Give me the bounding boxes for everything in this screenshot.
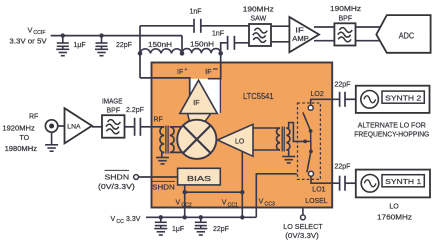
svg-text:22pF: 22pF: [335, 81, 351, 88]
svg-text:RF: RF: [154, 117, 163, 124]
svg-text:LTC5541: LTC5541: [243, 92, 274, 101]
svg-text:BIAS: BIAS: [187, 174, 211, 183]
svg-text:LNA: LNA: [67, 124, 81, 131]
svg-text:+: +: [184, 67, 187, 73]
svg-text:V: V: [222, 199, 227, 206]
svg-text:22pF: 22pF: [116, 42, 132, 49]
svg-text:CC1: CC1: [228, 202, 238, 208]
svg-text:V: V: [176, 199, 181, 206]
svg-text:3.3V or 5V: 3.3V or 5V: [9, 36, 46, 45]
svg-text:SYNTH 1: SYNTH 1: [385, 177, 421, 186]
svg-text:IMAGE: IMAGE: [102, 96, 123, 105]
svg-text:FREQUENCY-HOPPING: FREQUENCY-HOPPING: [354, 132, 429, 139]
svg-text:190MHz: 190MHz: [330, 4, 361, 13]
svg-text:LO1: LO1: [312, 187, 325, 194]
svg-text:CC3: CC3: [265, 202, 275, 208]
svg-text:IF: IF: [177, 69, 183, 76]
svg-text:1μF: 1μF: [74, 42, 86, 49]
svg-text:(0V/3.3V): (0V/3.3V): [98, 184, 135, 191]
svg-text:V: V: [28, 26, 33, 35]
svg-text:LO: LO: [235, 138, 245, 145]
svg-text:1980MHz: 1980MHz: [5, 144, 38, 153]
svg-text:2.2pF: 2.2pF: [126, 107, 144, 114]
svg-text:190MHz: 190MHz: [243, 4, 274, 13]
svg-text:CC2: CC2: [181, 202, 191, 208]
svg-text:V: V: [259, 199, 264, 206]
svg-text:SYNTH 2: SYNTH 2: [385, 93, 421, 102]
svg-text:ALTERNATE LO FOR: ALTERNATE LO FOR: [358, 123, 426, 130]
svg-text:TO: TO: [20, 135, 30, 142]
svg-text:RF: RF: [29, 114, 38, 121]
svg-text:IF: IF: [193, 100, 199, 107]
svg-text:1nF: 1nF: [190, 9, 202, 16]
svg-text:1μF: 1μF: [172, 226, 184, 233]
svg-text:IF: IF: [295, 27, 304, 34]
svg-text:CC: CC: [116, 219, 124, 225]
svg-text:22pF: 22pF: [213, 226, 229, 233]
svg-text:3.3V: 3.3V: [126, 216, 141, 223]
svg-text:22pF: 22pF: [335, 164, 351, 171]
svg-text:V: V: [111, 216, 116, 223]
svg-text:LO2: LO2: [311, 91, 324, 98]
svg-text:SHDN: SHDN: [105, 172, 130, 181]
svg-text:LO: LO: [389, 204, 399, 211]
svg-text:1nF: 1nF: [212, 31, 224, 38]
svg-text:ADC: ADC: [399, 31, 414, 41]
svg-text:1760MHz: 1760MHz: [377, 212, 412, 221]
svg-text:150nH: 150nH: [148, 40, 172, 49]
svg-text:AMP: AMP: [292, 36, 309, 43]
svg-text:LOSEL: LOSEL: [305, 196, 328, 205]
svg-text:BPF: BPF: [339, 15, 353, 22]
svg-text:IF: IF: [205, 69, 211, 76]
svg-text:BPF: BPF: [107, 108, 121, 115]
svg-text:(0V/3.3V): (0V/3.3V): [285, 233, 319, 240]
svg-text:150nH: 150nH: [190, 40, 214, 49]
svg-text:CCIF: CCIF: [33, 30, 45, 36]
svg-text:SHDN: SHDN: [152, 183, 175, 192]
svg-text:SAW: SAW: [251, 15, 267, 22]
svg-text:1920MHz: 1920MHz: [2, 123, 35, 132]
svg-text:LO SELECT: LO SELECT: [283, 222, 323, 231]
